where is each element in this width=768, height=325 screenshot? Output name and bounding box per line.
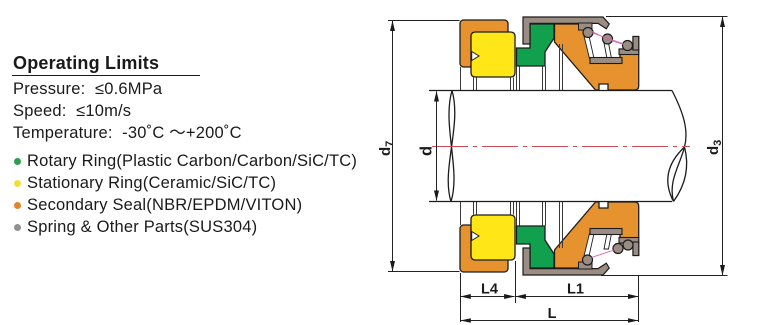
bellows lower (orange) xyxy=(555,202,639,268)
seat cup lower (orange secondary seal) xyxy=(460,225,508,272)
centerline xyxy=(432,146,690,148)
dim line L1 xyxy=(516,296,639,298)
dim line L xyxy=(461,320,639,322)
spring far-side legs upper xyxy=(584,36,612,59)
rotary ring lower (green) xyxy=(517,226,555,268)
spring retainer lower (gray) xyxy=(590,229,639,256)
spring nest upper (gray) xyxy=(579,23,593,30)
ext line L middle xyxy=(515,261,517,303)
L1 arrows xyxy=(515,294,526,299)
case lower (gray metal shell) xyxy=(523,248,609,275)
dim line d3 xyxy=(722,17,724,275)
svg-text:d7: d7 xyxy=(377,141,396,156)
arrowheads xyxy=(390,17,725,323)
dim line L4 xyxy=(461,296,515,298)
rotary ring upper (green) xyxy=(517,24,555,66)
bore edge lines lower xyxy=(461,202,563,248)
spring coils upper xyxy=(583,28,633,51)
ext line d7 bottom xyxy=(388,271,460,273)
stationary ring upper (yellow) xyxy=(471,32,515,77)
stationary ring lower (yellow) xyxy=(471,215,515,260)
svg-text:L1: L1 xyxy=(567,282,584,298)
L arrows xyxy=(460,318,471,323)
dim line d xyxy=(436,92,438,201)
d arrows xyxy=(434,91,439,102)
bore edge lines upper xyxy=(461,44,563,90)
d3 arrows xyxy=(720,17,725,28)
spring helix lines upper (pink) xyxy=(591,31,624,45)
ext line L right xyxy=(638,276,640,322)
seat cup upper (orange secondary seal) xyxy=(460,20,508,67)
spring nest lower (gray) xyxy=(579,262,593,269)
ext line d3 top xyxy=(606,16,728,18)
svg-text:L: L xyxy=(548,306,557,322)
case upper (gray metal shell) xyxy=(523,17,609,44)
spring coils lower xyxy=(583,240,634,265)
spring helix line lower (pink) xyxy=(592,250,615,258)
legend bullets xyxy=(10,150,357,238)
svg-text:d: d xyxy=(418,146,436,156)
bellows upper (orange) xyxy=(555,24,639,90)
svg-text:d3: d3 xyxy=(705,140,724,155)
spring far-side legs lower xyxy=(584,234,612,257)
d7 arrows xyxy=(390,21,395,32)
dim line d7 xyxy=(392,21,394,271)
ext line d7 top xyxy=(388,20,460,22)
notch upper xyxy=(472,52,479,61)
ext line L left xyxy=(460,273,462,322)
shaft xyxy=(429,91,687,202)
left spec text block xyxy=(13,54,393,144)
ext line d3 bottom xyxy=(601,275,728,277)
dimension labels xyxy=(377,140,724,322)
L4 arrows xyxy=(460,294,471,299)
svg-text:L4: L4 xyxy=(481,282,498,298)
spring retainer upper (gray) xyxy=(590,37,639,64)
notch lower xyxy=(472,232,479,241)
